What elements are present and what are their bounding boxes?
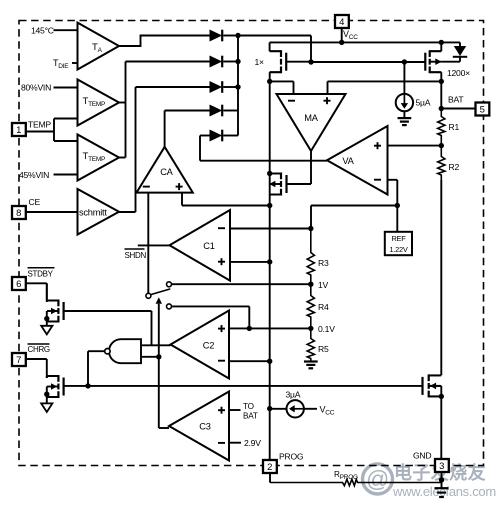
svg-text:0.1V: 0.1V — [318, 324, 335, 334]
svg-text:2: 2 — [267, 462, 272, 473]
logic gate U1 NAND — [105, 339, 141, 363]
label 145degC input — [31, 26, 54, 36]
VA minus sign — [374, 179, 381, 181]
wire REF node to REF box — [396, 206, 398, 234]
svg-text:6: 6 — [16, 279, 21, 290]
MA plus sign — [324, 97, 331, 104]
wire MA output to M2 gate — [287, 151, 312, 184]
svg-text:1200×: 1200× — [447, 68, 470, 78]
junction CA plus PROG — [267, 203, 272, 208]
junction 3uA PROG — [267, 406, 272, 411]
op-amp TA thermal amplifier — [78, 23, 120, 70]
C1 minus sign — [218, 227, 225, 229]
wire M6 body source to ground — [47, 387, 59, 404]
wire M6 drain stub — [47, 376, 59, 378]
wire C3 noninverting stub — [229, 409, 241, 411]
label 2.9V — [244, 438, 261, 448]
junction M1 drain MA inverting — [267, 79, 272, 84]
svg-text:4: 4 — [339, 17, 344, 28]
wire 45%VIN to TTEMP2 — [54, 174, 78, 176]
label 3uA — [286, 390, 301, 400]
wire pin6 to M5 drain — [26, 283, 47, 302]
wire diode cathodes bus — [223, 36, 238, 136]
op-amp C1 — [170, 210, 231, 281]
junction R3 top C1 minus — [308, 226, 313, 231]
junction BAT node — [439, 106, 444, 111]
junction M4 source body — [439, 394, 444, 399]
svg-text:CE: CE — [29, 197, 41, 207]
wire VA inverting to REF — [388, 180, 398, 206]
wire C2 noninverting to 0.1V node — [229, 327, 311, 329]
voltage reference REF 1.22V — [385, 232, 412, 255]
label VCC 3uA — [320, 405, 335, 417]
svg-text:R5: R5 — [318, 344, 329, 354]
svg-text:1.22V: 1.22V — [389, 245, 407, 254]
wire PROG net vertical — [269, 81, 271, 460]
switch lever — [151, 289, 171, 295]
CA minus sign — [143, 186, 150, 188]
wire TDIE to TA — [72, 62, 78, 64]
svg-text:@: @ — [366, 466, 389, 492]
op-amp C3 — [169, 392, 229, 461]
wire CA output to diode D4 — [165, 111, 210, 147]
wire PROG net to 3uA — [270, 408, 287, 410]
label 1x — [255, 57, 265, 67]
wire C1 output SHDN — [138, 244, 170, 246]
CA plus sign — [176, 183, 183, 190]
wire M3 body to diode D6 — [441, 61, 460, 63]
junction C1 plus PROG — [267, 259, 272, 264]
label VCC pin4 — [343, 29, 358, 41]
wire VA noninverting to R1R2 tap — [388, 145, 442, 147]
diode D1 — [210, 30, 222, 42]
wire NAND input 2 — [141, 356, 159, 358]
ground below R5 — [304, 362, 318, 369]
svg-text:MA: MA — [304, 113, 318, 123]
C2 plus sign — [218, 325, 225, 332]
wire M5 gate to C2 output — [64, 311, 152, 345]
svg-text:VA: VA — [342, 156, 354, 166]
svg-text:GND: GND — [413, 451, 431, 461]
ground below 5uA — [398, 118, 412, 125]
transistor M1 1x mirror PMOS — [270, 50, 287, 73]
svg-text:45%VIN: 45%VIN — [19, 170, 49, 180]
wire RPROG to GND node — [441, 480, 443, 483]
pin 8 CE — [12, 206, 26, 219]
wire switch lower to 0.1V line — [172, 306, 250, 328]
svg-text:BAT: BAT — [448, 95, 464, 105]
svg-text:TEMP: TEMP — [28, 120, 51, 130]
svg-text:CHRG: CHRG — [28, 345, 50, 354]
junction VA minus REF node — [395, 203, 400, 208]
wire pin2 to RPROG — [269, 473, 271, 483]
schmitt trigger buffer — [78, 189, 120, 235]
svg-text:145°C: 145°C — [31, 26, 54, 36]
C3 minus sign — [218, 442, 225, 444]
watermark elecfans — [363, 462, 496, 499]
junction C2 minus PROG — [267, 359, 272, 364]
label STDBY — [28, 268, 55, 279]
junction node 0.1V — [308, 326, 313, 331]
label 5uA — [416, 98, 431, 108]
pin 6 STDBY — [12, 277, 26, 290]
diode D3 — [210, 81, 222, 93]
wire pin3 to ground — [441, 472, 443, 489]
label 1200x — [447, 68, 470, 78]
pin 2 PROG — [263, 460, 277, 473]
junction diode bus top — [235, 33, 240, 38]
wire gate node to 5uA source — [403, 62, 405, 95]
wire CE pin to schmitt — [26, 211, 78, 213]
junction GND RPROG — [439, 477, 444, 482]
resistor R3 — [307, 229, 329, 285]
junction VCC rail M3 source — [439, 40, 444, 45]
svg-text:schmitt: schmitt — [79, 208, 107, 218]
diode D6 body diode — [453, 42, 467, 61]
transistor M4 output NMOS — [423, 374, 441, 397]
transistor M2 sense PMOS — [269, 173, 286, 196]
C2 minus sign — [218, 360, 225, 362]
junction wiper NAND input — [156, 354, 161, 359]
svg-text:BAT: BAT — [243, 412, 258, 421]
C1 plus sign — [218, 258, 225, 265]
wire 145C to TA — [54, 29, 78, 31]
resistor R2 — [438, 146, 460, 180]
wire C2 inverting to PROG net — [229, 360, 270, 362]
svg-text:1: 1 — [16, 125, 21, 136]
switch throw contact upper — [167, 282, 172, 287]
current source I1 5uA — [396, 94, 413, 111]
op-amp MA — [277, 94, 346, 151]
junction node 1V — [308, 282, 313, 287]
transistor M6 CHRG NMOS — [47, 375, 64, 398]
svg-text:R1: R1 — [449, 122, 460, 132]
svg-text:R2: R2 — [449, 162, 460, 172]
wire TTEMP outputs riser to diode D2 — [119, 62, 210, 158]
junction MA plus M3 drain — [439, 79, 444, 84]
switch wiper arrow — [156, 297, 162, 428]
junction diode bus D2 — [235, 59, 240, 64]
diode D4 — [210, 105, 222, 117]
op-amp C2 — [171, 311, 230, 379]
wire CA noninverting input to PROG net — [182, 193, 272, 206]
wire VCC rail — [270, 41, 460, 43]
op-amp CA — [137, 147, 193, 193]
label TO BAT — [243, 402, 258, 421]
junction NAND output gate line — [85, 383, 90, 388]
svg-text:5: 5 — [480, 105, 485, 116]
MA minus sign — [288, 100, 295, 102]
resistor R1 — [438, 109, 460, 146]
label BAT — [448, 95, 464, 105]
wire MA noninverting input to M3 drain — [328, 81, 442, 94]
svg-text:3: 3 — [439, 461, 444, 472]
junction VCC rail pin4 — [339, 40, 344, 45]
label 80%VIN — [21, 83, 51, 93]
wire 80%VIN to TTEMP1 — [54, 87, 78, 89]
wire M4 drain stub — [429, 374, 442, 376]
pin 5 BAT — [476, 103, 490, 116]
wire pin4 to VCC rail — [341, 28, 343, 43]
diode D5 — [210, 130, 222, 142]
wire M2 drain stub — [270, 194, 281, 196]
svg-text:1×: 1× — [255, 57, 265, 67]
junction gate node M1 — [308, 59, 313, 64]
svg-text:5µA: 5µA — [416, 98, 431, 108]
junction R1 R2 VA input — [439, 143, 444, 148]
pin 7 CHRG — [12, 353, 26, 366]
ground below M6 — [41, 403, 52, 412]
wire M3 drain vertical to BAT — [430, 72, 442, 108]
ground below pin3 — [435, 488, 449, 497]
switch common contact — [146, 293, 151, 298]
junction M5 source body — [44, 316, 49, 321]
op-amp VA — [327, 126, 388, 195]
wire M1 source to VCC — [270, 42, 281, 51]
wire M4 body to source — [429, 386, 442, 397]
pin 3 GND — [435, 459, 449, 472]
svg-text:REF: REF — [391, 234, 406, 243]
svg-text:C3: C3 — [199, 422, 210, 432]
label CE — [29, 197, 41, 207]
wire M1 drain to PROG net vertical — [270, 72, 281, 81]
wire M3 source to VCC rail — [430, 42, 442, 51]
wire C2 output to NAND — [141, 344, 171, 346]
wire pin7 to M6 drain — [26, 359, 47, 378]
svg-text:80%VIN: 80%VIN — [21, 83, 51, 93]
svg-text:C1: C1 — [203, 241, 214, 251]
wire C1 inverting to R3 node — [230, 228, 311, 230]
wire MA inverting input — [270, 81, 294, 94]
transistor M3 1200x PMOS — [425, 50, 441, 73]
junction M6 source body — [44, 392, 49, 397]
wire BAT node to pin5 — [441, 108, 475, 110]
switch throw contact lower — [167, 304, 172, 309]
resistor RPROG — [270, 470, 442, 486]
wire NAND output to gate line — [88, 351, 105, 386]
wire gate bus to M1 M3 gates — [238, 36, 425, 63]
junction diode bus D3 — [235, 84, 240, 89]
wire R2 to M4 drain — [440, 180, 442, 375]
svg-text:SHDN: SHDN — [125, 251, 147, 260]
label 1V — [318, 280, 329, 290]
op-amp TTEMP2 — [78, 135, 120, 181]
wire 3uA to VCC — [304, 408, 317, 410]
wire schmitt output riser to diode D3 — [119, 87, 210, 212]
wire M5 drain stub — [47, 283, 59, 300]
op-amp TTEMP1 — [78, 80, 120, 126]
label SHDN — [125, 249, 147, 260]
svg-text:C2: C2 — [203, 341, 214, 351]
pin 1 TEMP — [12, 123, 26, 136]
svg-text:R4: R4 — [318, 302, 329, 312]
label GND — [413, 451, 431, 461]
label TEMP — [28, 120, 51, 130]
junction gate node 5uA — [402, 59, 407, 64]
svg-text:R3: R3 — [318, 258, 329, 268]
wire M1 gate — [286, 61, 311, 63]
wire M5 body source to ground — [47, 311, 59, 326]
wire VA output to diode D5 — [200, 136, 327, 161]
wire TA output to diode D1 — [119, 36, 210, 47]
wire C3 output to wiper line — [159, 427, 169, 429]
resistor R5 — [307, 328, 329, 361]
wire TEMP pin to TTEMP inputs — [26, 119, 78, 142]
resistor R4 — [307, 284, 329, 328]
junction M2 source — [267, 171, 272, 176]
pin 4 VCC — [335, 15, 349, 28]
wire M2 source stub to PROG net — [270, 173, 281, 175]
wire REF node to R3 top — [311, 206, 397, 229]
diode D2 — [210, 56, 222, 68]
wire 5uA to ground — [403, 111, 405, 118]
label 0.1V — [318, 324, 335, 334]
wire M4 source to GND pin — [440, 396, 442, 459]
label TDIE input — [53, 58, 69, 70]
svg-text:2.9V: 2.9V — [244, 438, 261, 448]
svg-text:1V: 1V — [318, 280, 329, 290]
wire C1 noninverting to PROG net — [230, 261, 270, 263]
svg-text:PROG: PROG — [279, 452, 304, 462]
svg-text:8: 8 — [16, 208, 21, 219]
wire C3 inverting stub — [229, 442, 241, 444]
VA plus sign — [374, 142, 381, 149]
transistor M5 STDBY NMOS — [47, 300, 64, 323]
wire switch upper to 1V node — [172, 283, 311, 285]
current source I2 3uA — [287, 400, 304, 417]
svg-text:TO: TO — [243, 402, 254, 411]
label PROG — [279, 452, 304, 462]
wire CA inverting input to switch — [147, 193, 149, 293]
C3 plus sign — [218, 407, 225, 414]
svg-text:3µA: 3µA — [286, 390, 301, 400]
junction C2 plus switch branch — [247, 326, 252, 331]
label 45%VIN — [19, 170, 49, 180]
label CHRG — [28, 344, 50, 354]
svg-text:7: 7 — [16, 355, 21, 366]
wire gate drive line — [64, 385, 423, 387]
ground below M5 — [41, 326, 52, 335]
svg-text:STDBY: STDBY — [28, 270, 54, 279]
svg-text:CA: CA — [160, 167, 173, 177]
